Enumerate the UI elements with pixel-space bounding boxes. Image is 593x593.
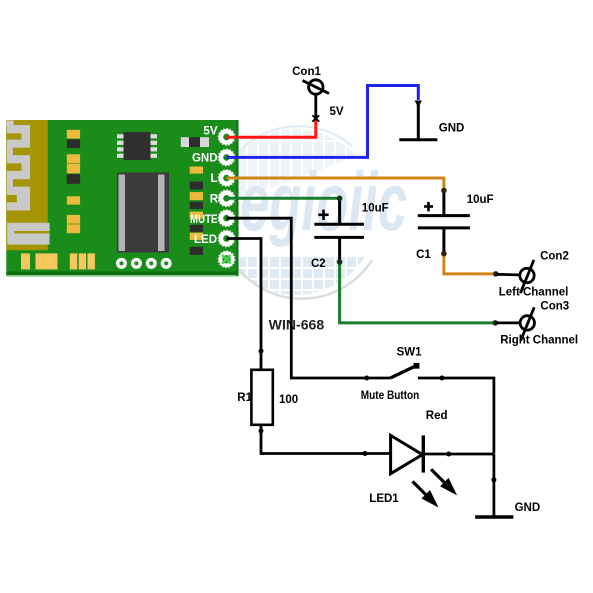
capacitor C2 [314,198,364,262]
connector Con2 [496,260,534,293]
pin holes 5V GND L R MUTE LED [219,129,235,267]
node LED anode wire [363,451,368,456]
node SW1 left [364,376,369,381]
svg-text:Left Channel: Left Channel [499,287,569,299]
mounting holes row [118,260,170,268]
node Con3 wire end [492,320,498,326]
node C2 top [337,196,343,202]
capacitor C1 [418,189,470,255]
SW1 lever tip [414,363,420,369]
LED LED1 [391,435,494,473]
key pad with green X [222,255,230,263]
wire LED black from module to R1 [227,239,262,370]
wire MUTE black from module to SW1 [227,218,367,378]
node on ground rail [491,477,496,482]
svg-text:MUTE: MUTE [190,214,218,226]
svg-text:Con1: Con1 [292,66,321,78]
svg-text:C1: C1 [416,249,431,261]
svg-text:GND: GND [192,153,218,165]
svg-text:C2: C2 [311,258,326,270]
wire R green from module to C2 and Con3 [227,198,496,323]
solder pads right column [190,167,203,255]
svg-text:WIN-668: WIN-668 [269,318,325,333]
svg-text:Con2: Con2 [540,251,569,263]
SMD resistor near 5V pad [181,137,209,147]
resistor R1 [251,370,272,425]
svg-text:100: 100 [279,394,298,406]
svg-text:L: L [210,173,217,185]
arrowhead at ground wire end [415,101,422,108]
node above R1 [259,349,264,354]
connector Con1 [303,80,330,122]
svg-text:Mute Button: Mute Button [361,390,420,402]
wire from SW1 to ground rail [442,378,494,454]
module U1 WIN-668 bluetooth audio board [6,120,238,277]
C1 plus polarity mark [424,202,433,212]
svg-text:Right Channel: Right Channel [500,335,578,347]
node below R1 [259,428,264,433]
wire from R1 to LED1 anode [261,425,391,454]
watermark logo thegioiic globe [210,120,407,300]
svg-text:5V: 5V [203,126,217,138]
svg-text:R1: R1 [237,392,252,404]
solder pads left column [67,130,80,233]
svg-text:R: R [210,194,219,206]
svg-text:5V: 5V [330,106,344,118]
C2 plus polarity mark [318,210,328,220]
ground symbol top [399,103,437,140]
svg-text:LED1: LED1 [369,493,399,505]
IC U2 SOIC-8 [117,132,157,160]
wire L orange from module to C1 and Con2 [227,178,496,274]
node SW1 right [439,376,444,381]
svg-text:SW1: SW1 [397,346,423,358]
ground symbol bottom [475,454,513,517]
IC U3 main chip [117,173,169,253]
svg-text:LED: LED [194,234,217,246]
node LED cathode wire [446,452,451,457]
LED light emission arrows [413,469,458,507]
node C1 top [441,188,447,194]
svg-text:Red: Red [426,410,448,422]
node C1 bottom [441,251,447,257]
node Con2 wire end [493,271,499,277]
svg-text:GND: GND [515,502,541,514]
switch SW1 [367,366,442,378]
svg-text:10uF: 10uF [467,194,494,206]
wire GND blue from module to ground [227,86,419,158]
svg-text:GND: GND [439,123,465,135]
svg-text:Con3: Con3 [540,300,569,312]
svg-text:10uF: 10uF [362,203,389,215]
connector Con3 [495,307,534,340]
antenna ANT1 meander [6,120,49,250]
castellated edge pads bottom [21,253,95,269]
wire 5V red from module to Con1 [227,119,316,137]
node C2 bottom [337,259,343,265]
